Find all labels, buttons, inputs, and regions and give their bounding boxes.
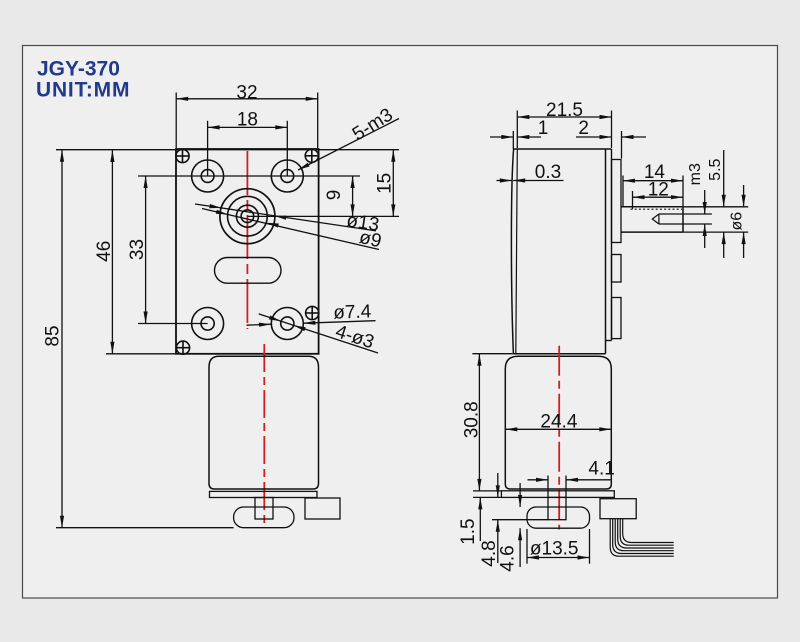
extension line hole center right <box>208 175 360 177</box>
dim 9 <box>352 176 354 216</box>
dim dia13.5 <box>527 557 590 559</box>
shaft m3 tapped hole <box>659 213 683 215</box>
extension line plate bottom side <box>473 496 501 498</box>
svg-text:30.8: 30.8 <box>461 401 482 438</box>
extension line shaft center right <box>247 215 399 217</box>
shaft thread dotted line <box>631 208 683 210</box>
svg-text:12: 12 <box>648 179 669 200</box>
motor flange plate front <box>210 491 318 497</box>
end cap bushing front <box>234 507 294 528</box>
dim 2 <box>576 136 612 138</box>
brush housing front <box>255 498 273 520</box>
dim 21.5 <box>517 116 611 118</box>
dim dia6 <box>743 185 745 207</box>
dim 46 <box>111 150 113 354</box>
motor flange plate side <box>501 491 614 498</box>
hole bottom-left <box>192 308 224 340</box>
flange tab 2 <box>612 255 622 283</box>
dim 5.5 <box>723 150 725 207</box>
svg-text:m3: m3 <box>687 163 704 185</box>
leader dia7.4 <box>303 321 375 324</box>
flange tab 3 <box>612 298 622 339</box>
dim 24.4 <box>505 428 611 430</box>
dim 15 <box>392 150 394 217</box>
leader dia13 <box>195 204 376 231</box>
extension line top edge <box>56 149 399 151</box>
leader 5-m3 <box>298 119 399 171</box>
connector block side <box>600 499 636 519</box>
svg-text:18: 18 <box>237 110 258 131</box>
hole bottom-right <box>271 308 303 340</box>
svg-text:9: 9 <box>324 190 345 201</box>
screw mark bottom-left <box>176 341 189 354</box>
dim 14 <box>623 180 683 182</box>
motor lead wires <box>610 519 674 557</box>
dim 12 <box>633 196 684 198</box>
svg-text:1: 1 <box>538 118 549 139</box>
dim 30.8 <box>478 354 480 491</box>
svg-text:32: 32 <box>236 83 257 104</box>
dim 4.1 <box>528 479 549 481</box>
svg-text:4.1: 4.1 <box>588 458 614 479</box>
dim 1.5 <box>479 497 481 541</box>
svg-text:15: 15 <box>374 173 395 194</box>
svg-text:ø13.5: ø13.5 <box>530 539 579 560</box>
svg-text:5.5: 5.5 <box>707 158 724 180</box>
motor body front <box>209 356 319 489</box>
extension lines shaft right <box>683 206 748 208</box>
centerline motor axis front (red) <box>263 344 265 528</box>
connector block front <box>305 498 340 519</box>
svg-text:4.6: 4.6 <box>497 545 518 571</box>
leader dia9 <box>202 209 379 250</box>
extension line gearbox bottom left <box>106 353 176 355</box>
extension line motor bottom side <box>473 490 501 492</box>
svg-text:0.3: 0.3 <box>535 162 561 183</box>
screw mark bottom-right <box>306 306 319 319</box>
svg-text:2: 2 <box>578 118 589 139</box>
dim 33 <box>145 176 147 324</box>
centerline motor axis side (red) <box>558 346 560 530</box>
brush housing side <box>548 497 566 519</box>
centerline output shaft (red) <box>246 151 248 329</box>
svg-text:1.5: 1.5 <box>458 518 479 544</box>
hole top-right <box>271 160 303 192</box>
output shaft side <box>621 206 683 208</box>
dim 32 <box>176 98 318 100</box>
extension line gearbox bottom side <box>472 353 512 355</box>
output shaft boss circles <box>220 189 275 244</box>
svg-text:24.4: 24.4 <box>540 411 577 432</box>
dim 18 <box>208 126 288 128</box>
dim 4.6 <box>519 483 521 507</box>
flange tab 1 <box>612 160 622 243</box>
screw mark top-right <box>305 149 318 162</box>
dim 85 <box>61 150 63 528</box>
hole top-left <box>192 160 224 192</box>
motor body side <box>505 356 611 489</box>
svg-text:85: 85 <box>43 325 64 346</box>
gearbox side outline <box>512 149 611 354</box>
flange face side <box>611 149 613 341</box>
dim 0.3 <box>497 180 512 182</box>
leader 4-dia3 <box>259 314 378 353</box>
dim m3 <box>704 190 706 214</box>
gearbox front outline <box>176 149 319 354</box>
extension line brush bottom side <box>492 519 548 521</box>
end cap bushing side <box>527 507 590 528</box>
dim 4.8 <box>497 473 499 497</box>
svg-text:33: 33 <box>127 239 148 260</box>
dim 1 <box>490 136 513 138</box>
svg-text:JGY-370: JGY-370 <box>37 58 120 81</box>
oval slot <box>215 258 282 284</box>
svg-text:ø6: ø6 <box>728 212 745 231</box>
svg-text:46: 46 <box>94 241 115 262</box>
svg-text:UNIT:MM: UNIT:MM <box>36 79 130 102</box>
screw mark top-left <box>176 149 189 162</box>
